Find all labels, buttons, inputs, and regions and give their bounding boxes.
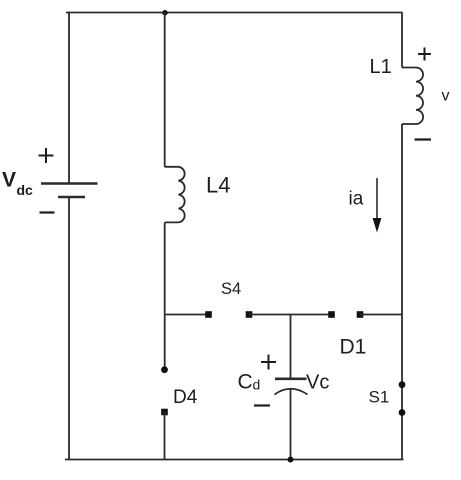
wire bottom bus xyxy=(65,459,404,461)
battery plus sign xyxy=(39,148,54,163)
diode D1 left contact xyxy=(328,311,335,318)
switch S1 top node xyxy=(399,381,406,388)
switch S4 left contact xyxy=(205,311,212,318)
wire right vertical upper xyxy=(401,13,403,68)
svg-text:D1: D1 xyxy=(340,336,367,359)
capacitor plus sign xyxy=(261,355,276,370)
node top junction xyxy=(162,10,167,15)
svg-text:ia: ia xyxy=(349,189,364,210)
svg-text:C: C xyxy=(238,371,253,394)
svg-text:L1: L1 xyxy=(370,56,392,78)
svg-text:S4: S4 xyxy=(221,280,241,298)
wire top bus xyxy=(66,12,403,14)
node capacitor bottom junction xyxy=(288,457,294,463)
wire capacitor branch lower xyxy=(290,389,292,460)
svg-text:S1: S1 xyxy=(369,388,390,407)
inductor L4 xyxy=(165,167,185,223)
inductor L1 xyxy=(402,68,423,125)
svg-text:V: V xyxy=(2,169,16,192)
diode D4 bottom node xyxy=(161,409,168,416)
inductor L1 minus sign xyxy=(415,138,432,140)
switch S4 right contact xyxy=(246,311,253,318)
capacitor Cd curved plate xyxy=(275,389,308,395)
wire middle vertical mid xyxy=(164,222,166,369)
wire S4 row right segment xyxy=(360,314,402,316)
wire S4 row left segment xyxy=(165,314,206,316)
wire right vertical lower xyxy=(401,124,403,460)
switch S1 bottom node xyxy=(399,409,406,416)
wire middle vertical bottom xyxy=(164,412,166,460)
wire left vertical upper xyxy=(68,12,70,184)
battery Vdc long plate xyxy=(41,182,98,184)
battery Vdc short plate xyxy=(58,196,85,198)
svg-text:Vc: Vc xyxy=(306,372,329,394)
inductor L1 plus sign xyxy=(418,48,431,61)
current arrow ia xyxy=(373,178,382,233)
battery minus sign xyxy=(40,211,55,213)
wire left vertical lower xyxy=(68,197,70,460)
svg-text:L4: L4 xyxy=(206,173,230,198)
diode D4 top node xyxy=(161,366,168,373)
diode D1 right contact xyxy=(357,311,364,318)
svg-text:v: v xyxy=(442,88,450,105)
capacitor minus sign xyxy=(254,404,270,406)
wire S4 row middle segment xyxy=(249,314,332,316)
wire capacitor branch upper xyxy=(290,315,292,379)
wire middle vertical upper xyxy=(164,13,166,168)
svg-text:dc: dc xyxy=(17,182,34,198)
svg-text:D4: D4 xyxy=(173,387,198,408)
svg-text:d: d xyxy=(253,377,261,393)
capacitor Cd top plate xyxy=(275,377,307,380)
